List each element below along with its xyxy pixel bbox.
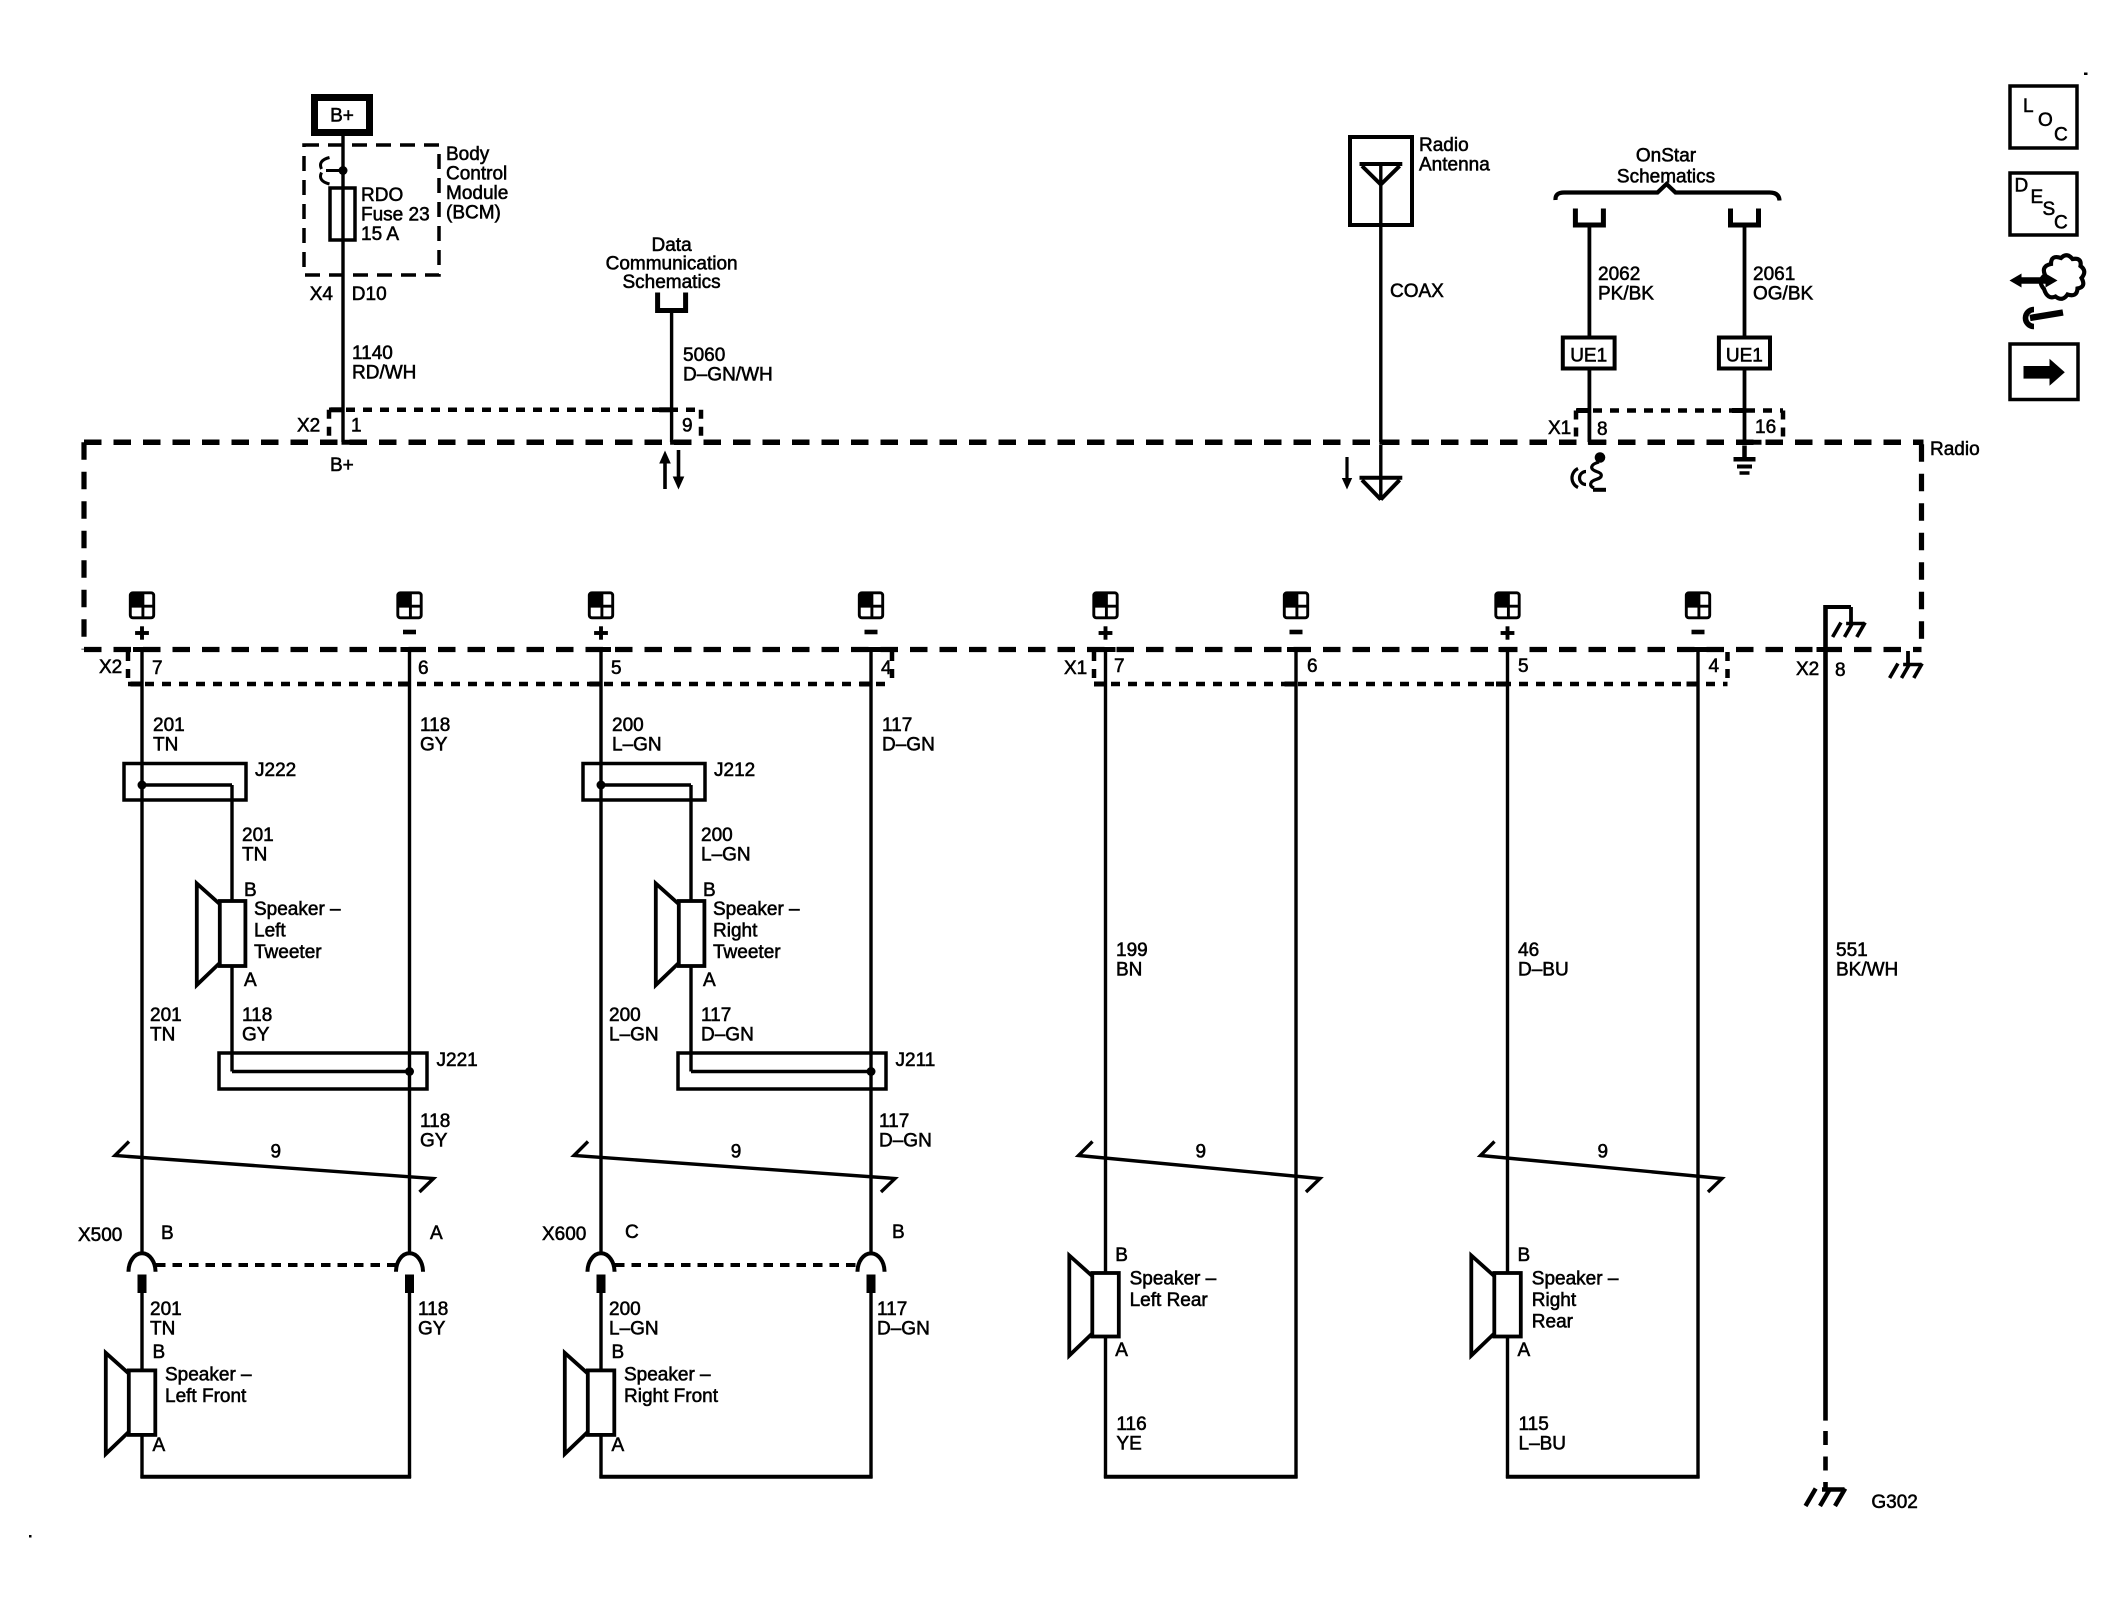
svg-text:C: C — [2054, 213, 2068, 234]
svg-text:Left Front: Left Front — [165, 1386, 247, 1407]
svg-text:X4: X4 — [310, 284, 334, 305]
svg-text:B: B — [1115, 1245, 1128, 1266]
svg-text:TN: TN — [242, 845, 267, 866]
svg-text:OG/BK: OG/BK — [1753, 284, 1814, 305]
svg-text:A: A — [703, 970, 716, 991]
svg-text:B+: B+ — [330, 455, 354, 476]
svg-text:J211: J211 — [896, 1050, 936, 1071]
svg-text:Module: Module — [446, 183, 508, 204]
svg-text:D–GN: D–GN — [882, 735, 935, 756]
svg-text:9: 9 — [1597, 1142, 1608, 1163]
svg-text:B: B — [244, 880, 257, 901]
svg-text:8: 8 — [1835, 660, 1846, 681]
svg-text:COAX: COAX — [1390, 281, 1444, 302]
svg-text:TN: TN — [153, 735, 178, 756]
svg-text:9: 9 — [1195, 1142, 1206, 1163]
svg-text:201: 201 — [153, 715, 185, 736]
svg-text:Control: Control — [446, 164, 507, 185]
svg-text:Speaker –: Speaker – — [624, 1365, 711, 1386]
svg-text:UE1: UE1 — [1570, 346, 1607, 367]
svg-text:X2: X2 — [99, 657, 122, 678]
svg-text:4: 4 — [1709, 656, 1720, 677]
svg-text:Body: Body — [446, 144, 490, 165]
svg-text:118: 118 — [418, 1299, 448, 1320]
svg-text:L: L — [2023, 96, 2034, 117]
svg-text:8: 8 — [1597, 419, 1608, 440]
svg-text:X1: X1 — [1064, 658, 1087, 679]
svg-text:BN: BN — [1116, 960, 1142, 981]
svg-text:4: 4 — [881, 658, 892, 679]
svg-text:9: 9 — [731, 1142, 742, 1163]
svg-text:1: 1 — [351, 416, 362, 437]
svg-text:X1: X1 — [1548, 418, 1571, 439]
svg-text:GY: GY — [420, 1131, 448, 1152]
svg-text:Left Rear: Left Rear — [1130, 1290, 1209, 1311]
svg-text:Speaker –: Speaker – — [1532, 1269, 1619, 1290]
svg-text:118: 118 — [242, 1005, 272, 1026]
svg-text:L–GN: L–GN — [612, 735, 662, 756]
svg-text:6: 6 — [1307, 656, 1318, 677]
svg-text:16: 16 — [1755, 417, 1776, 438]
svg-text:L–GN: L–GN — [609, 1025, 659, 1046]
svg-text:200: 200 — [612, 715, 644, 736]
svg-text:X600: X600 — [542, 1224, 586, 1245]
svg-text:201: 201 — [242, 825, 274, 846]
svg-text:TN: TN — [150, 1319, 175, 1340]
svg-text:D–GN: D–GN — [701, 1025, 754, 1046]
svg-text:6: 6 — [418, 658, 429, 679]
svg-text:C: C — [625, 1222, 639, 1243]
svg-text:117: 117 — [701, 1005, 731, 1026]
svg-text:9: 9 — [682, 416, 693, 437]
svg-text:G302: G302 — [1871, 1492, 1917, 1513]
svg-text:J212: J212 — [714, 760, 755, 781]
svg-text:(BCM): (BCM) — [446, 203, 501, 224]
svg-text:D: D — [2015, 176, 2029, 197]
svg-text:B: B — [1518, 1245, 1531, 1266]
svg-text:201: 201 — [150, 1005, 182, 1026]
svg-text:D–BU: D–BU — [1518, 960, 1569, 981]
svg-text:YE: YE — [1116, 1434, 1141, 1455]
svg-text:GY: GY — [418, 1319, 446, 1340]
svg-text:7: 7 — [1114, 656, 1125, 677]
svg-text:Tweeter: Tweeter — [254, 942, 322, 963]
svg-text:200: 200 — [701, 825, 733, 846]
svg-text:117: 117 — [877, 1299, 907, 1320]
svg-text:199: 199 — [1116, 940, 1148, 961]
svg-text:UE1: UE1 — [1726, 346, 1763, 367]
svg-text:201: 201 — [150, 1299, 182, 1320]
svg-text:551: 551 — [1836, 940, 1868, 961]
svg-text:GY: GY — [420, 735, 448, 756]
svg-text:A: A — [1518, 1340, 1531, 1361]
svg-text:5: 5 — [611, 658, 622, 679]
svg-text:X500: X500 — [78, 1225, 122, 1246]
svg-text:Speaker –: Speaker – — [1130, 1269, 1217, 1290]
svg-text:RD/WH: RD/WH — [352, 363, 416, 384]
svg-text:Right: Right — [713, 921, 758, 942]
svg-text:Rear: Rear — [1532, 1312, 1574, 1333]
svg-text:J222: J222 — [255, 760, 296, 781]
svg-text:B: B — [892, 1222, 905, 1243]
svg-text:15 A: 15 A — [361, 224, 399, 245]
svg-text:9: 9 — [270, 1142, 281, 1163]
svg-text:200: 200 — [609, 1005, 641, 1026]
svg-text:B+: B+ — [330, 106, 354, 127]
svg-text:X2: X2 — [1796, 659, 1819, 680]
svg-text:D–GN: D–GN — [877, 1319, 930, 1340]
svg-text:Antenna: Antenna — [1419, 155, 1490, 176]
svg-text:B: B — [161, 1223, 174, 1244]
svg-text:BK/WH: BK/WH — [1836, 960, 1898, 981]
svg-text:J221: J221 — [437, 1050, 478, 1071]
svg-text:L–BU: L–BU — [1519, 1434, 1567, 1455]
svg-text:Right: Right — [1532, 1290, 1577, 1311]
svg-text:2062: 2062 — [1598, 264, 1640, 285]
svg-text:200: 200 — [609, 1299, 641, 1320]
svg-text:D–GN: D–GN — [879, 1131, 932, 1152]
svg-text:A: A — [430, 1223, 443, 1244]
svg-text:Schematics: Schematics — [622, 272, 720, 293]
svg-text:Left: Left — [254, 921, 286, 942]
svg-text:C: C — [2054, 125, 2068, 146]
svg-text:A: A — [1115, 1340, 1128, 1361]
svg-text:A: A — [244, 970, 257, 991]
svg-text:PK/BK: PK/BK — [1598, 284, 1654, 305]
svg-text:D10: D10 — [352, 284, 387, 305]
svg-text:D–GN/WH: D–GN/WH — [683, 365, 773, 386]
svg-text:116: 116 — [1116, 1414, 1146, 1435]
svg-text:46: 46 — [1518, 940, 1539, 961]
svg-text:118: 118 — [420, 1111, 450, 1132]
svg-text:A: A — [153, 1435, 166, 1456]
svg-text:B: B — [612, 1342, 625, 1363]
svg-text:E: E — [2031, 187, 2044, 208]
svg-text:B: B — [153, 1342, 166, 1363]
svg-text:RDO: RDO — [361, 185, 403, 206]
svg-text:7: 7 — [152, 658, 163, 679]
svg-text:117: 117 — [882, 715, 912, 736]
svg-text:L–GN: L–GN — [701, 845, 751, 866]
svg-text:2061: 2061 — [1753, 264, 1795, 285]
svg-text:B: B — [703, 880, 716, 901]
svg-text:Speaker –: Speaker – — [165, 1365, 252, 1386]
svg-text:Tweeter: Tweeter — [713, 942, 781, 963]
svg-text:Radio: Radio — [1930, 439, 1980, 460]
svg-text:OnStar: OnStar — [1636, 146, 1697, 167]
svg-text:Speaker –: Speaker – — [254, 899, 341, 920]
svg-text:Fuse 23: Fuse 23 — [361, 205, 430, 226]
svg-text:115: 115 — [1519, 1414, 1549, 1435]
svg-text:L–GN: L–GN — [609, 1319, 659, 1340]
svg-text:O: O — [2038, 110, 2053, 131]
svg-text:Radio: Radio — [1419, 135, 1469, 156]
svg-text:TN: TN — [150, 1025, 175, 1046]
svg-text:117: 117 — [879, 1111, 909, 1132]
svg-text:A: A — [612, 1435, 625, 1456]
svg-text:Speaker –: Speaker – — [713, 899, 800, 920]
svg-text:5060: 5060 — [683, 345, 725, 366]
svg-text:GY: GY — [242, 1025, 270, 1046]
svg-text:X2: X2 — [297, 416, 320, 437]
svg-text:5: 5 — [1518, 656, 1529, 677]
svg-text:1140: 1140 — [352, 343, 393, 364]
svg-text:118: 118 — [420, 715, 450, 736]
svg-text:Right Front: Right Front — [624, 1386, 719, 1407]
